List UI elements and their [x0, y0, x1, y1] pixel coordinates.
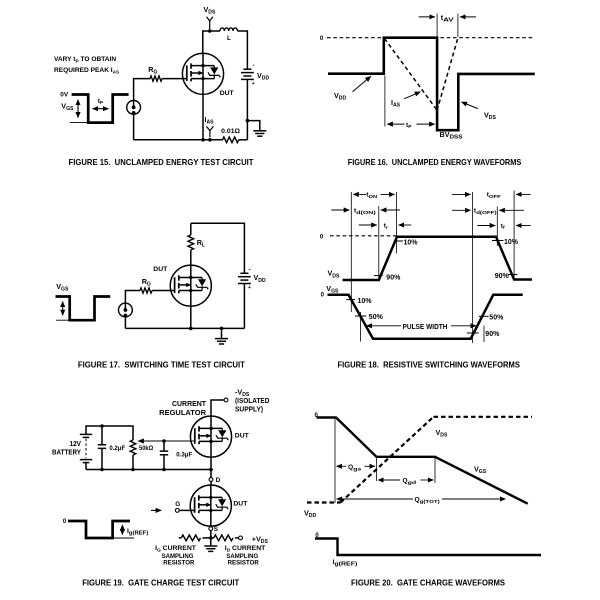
resistor ID sampling: [214, 535, 233, 541]
pulse baseline tick: [70, 122, 88, 124]
pulse waveform VGS: [56, 297, 111, 321]
potentiometer 50k: [130, 440, 136, 455]
pulse waveform Ig: [68, 521, 130, 538]
wire RG to gate: [162, 78, 187, 80]
capacitor 0.3uF bottom lead: [163, 455, 165, 470]
tick 90 percent VDS left: [374, 275, 383, 277]
svg-text:0.3μF: 0.3μF: [176, 452, 192, 459]
tick vertical 50 percent right: [483, 326, 485, 343]
wire top left: [203, 31, 220, 53]
arrow VDD pointer: [353, 76, 371, 92]
arrow pulse width left: [367, 325, 402, 327]
tick vertical tAV right: [457, 14, 459, 38]
svg-text:REGULATOR: REGULATOR: [159, 408, 206, 417]
junction dot DUT source: [201, 138, 205, 142]
svg-text:0.2μF: 0.2μF: [109, 445, 125, 452]
battery dashed middle: [85, 439, 87, 459]
wire terminal D to DUT drain: [210, 481, 212, 485]
svg-text:FIGURE 20. GATE CHARGE WAVEFO: FIGURE 20. GATE CHARGE WAVEFORMS: [351, 577, 505, 587]
arrow td(ON) left: [331, 209, 349, 211]
pulse generator: [127, 101, 141, 115]
svg-text:90%: 90%: [495, 273, 510, 280]
node VDS arrow: [207, 17, 213, 30]
arrow Qg(TOT) right: [442, 498, 506, 500]
svg-text:50%: 50%: [489, 315, 504, 322]
wire bottom left: [134, 139, 223, 141]
wire pulse gen top: [134, 79, 150, 101]
svg-text:PULSE WIDTH: PULSE WIDTH: [403, 324, 448, 331]
waveform VDS dashed flat left: [307, 501, 341, 503]
wire DUT source down: [202, 94, 204, 139]
arrow td(ON) right: [381, 209, 400, 211]
tick vertical tAV left: [436, 14, 438, 38]
resistor 0.01 ohm: [223, 137, 239, 143]
svg-text:G: G: [175, 501, 180, 508]
svg-text:90%: 90%: [386, 274, 401, 281]
junction dots bottom rail: [100, 468, 104, 472]
wire DUT source to terminal S: [210, 525, 212, 528]
wire to ground: [247, 121, 259, 131]
svg-text:-: -: [249, 268, 251, 274]
arrow tON right: [381, 193, 395, 195]
waveform Ig(REF): [315, 539, 541, 556]
ground: [204, 546, 217, 551]
wire battery bottom: [85, 463, 87, 470]
svg-text:VARY tP TO OBTAIN: VARY tP TO OBTAIN: [54, 56, 116, 64]
terminal D: [209, 478, 213, 482]
arrow tr left: [359, 224, 377, 226]
arrow tAV right: [460, 16, 476, 18]
resistor IG sampling: [181, 535, 200, 541]
svg-text:10%: 10%: [504, 239, 519, 246]
tick vertical 50 percent left: [360, 312, 362, 342]
svg-text:DUT: DUT: [220, 90, 235, 97]
arrow Qgd left: [378, 479, 400, 481]
svg-text:50%: 50%: [369, 314, 384, 321]
dashed recovery line: [437, 39, 458, 111]
svg-text:BATTERY: BATTERY: [52, 450, 81, 457]
wire bottom right: [239, 139, 248, 141]
svg-text:FIGURE 19. GATE CHARGE TEST C: FIGURE 19. GATE CHARGE TEST CIRCUIT: [82, 577, 239, 587]
waveform VGS solid: [317, 418, 528, 504]
ground node dot: [246, 119, 250, 123]
arrow td(OFF) right: [499, 209, 524, 211]
svg-text:50kΩ: 50kΩ: [139, 445, 154, 452]
arrow tf right: [516, 225, 531, 227]
transistor DUT lower: [190, 485, 231, 526]
junction dot cap top: [100, 424, 104, 428]
svg-text:FIGURE 18. RESISTIVE SWITCHIN: FIGURE 18. RESISTIVE SWITCHING WAVEFORMS: [337, 360, 520, 370]
wire RL bottom lead: [190, 250, 192, 265]
arrow VGS amplitude: [62, 302, 64, 316]
resistor RL: [188, 235, 194, 250]
svg-text:10%: 10%: [358, 298, 373, 305]
tick vertical plateau end: [434, 457, 436, 483]
arrow tOFF left: [452, 193, 471, 195]
junction dot ground: [220, 327, 224, 331]
waveform VDS: [343, 237, 533, 280]
arrow Qgs left: [337, 465, 347, 467]
svg-text:REQUIRED PEAK IAS: REQUIRED PEAK IAS: [54, 67, 119, 75]
wire sampling rail left: [179, 537, 182, 539]
svg-text:S: S: [214, 526, 219, 533]
ground: [215, 339, 228, 344]
svg-text:SUPPLY): SUPPLY): [235, 405, 264, 414]
arrow tOFF right: [516, 193, 531, 195]
svg-text:FIGURE 17. SWITCHING TIME TES: FIGURE 17. SWITCHING TIME TEST CIRCUIT: [78, 360, 245, 370]
capacitor 0.3uF: [160, 451, 168, 455]
svg-text:10%: 10%: [404, 239, 419, 246]
arrow pulse width right: [451, 325, 476, 327]
potentiometer wiper arrow: [138, 440, 195, 442]
wire to center node: [203, 537, 214, 539]
svg-text:90%: 90%: [485, 331, 500, 338]
wire to +VDS terminal: [235, 537, 239, 539]
junction dot sampling node: [209, 536, 213, 540]
capacitor 0.3uF top lead: [163, 441, 165, 451]
waveform VDS solid: [328, 38, 535, 131]
wire DUT source down: [190, 306, 192, 328]
wire pulse gen bottom: [133, 114, 135, 140]
tick vertical tp left: [384, 76, 386, 127]
transistor current regulator: [190, 416, 231, 457]
wire RG to gate: [152, 290, 174, 292]
zero reference dashed line: [330, 235, 397, 237]
svg-text:RESISTOR: RESISTOR: [228, 559, 259, 566]
capacitor 0.2uF: [98, 445, 106, 449]
waveform VDS dashed ramp: [341, 417, 434, 503]
pulse baseline tick: [56, 319, 69, 321]
waveform VDS dashed flat top: [434, 416, 533, 418]
transistor DUT: [182, 53, 223, 94]
tick 50 percent VGS left: [355, 315, 366, 317]
wire top right: [238, 31, 248, 69]
tick vertical plateau start: [376, 457, 378, 481]
wire regulator source to rail: [210, 457, 212, 469]
arrow Qgd right: [421, 479, 434, 481]
terminal +VDS: [239, 536, 243, 540]
arrow Ig amplitude: [121, 525, 123, 535]
junction dot wiper wire: [162, 439, 166, 443]
battery VDD: [238, 273, 251, 283]
tick 10 percent VDS left: [394, 240, 403, 242]
battery 12V: [80, 434, 92, 462]
wire battery to bottom: [243, 284, 245, 329]
terminal G: [175, 509, 179, 513]
wire RL top lead: [190, 223, 192, 235]
tick vertical VDS 10 left: [396, 192, 398, 254]
node VDS junction dot: [208, 29, 212, 33]
ground stem: [221, 328, 223, 338]
svg-text:12V: 12V: [70, 441, 82, 448]
dashed current ramp IAS: [385, 39, 438, 111]
zero reference dashed line: [327, 37, 534, 39]
resistor RG: [150, 76, 162, 81]
arrow IAS pointer: [404, 92, 420, 99]
svg-text:0V: 0V: [60, 92, 69, 99]
capacitor 0.2uF top lead: [101, 426, 103, 445]
arrow VDS pointer: [462, 102, 478, 109]
arrow tr right: [399, 224, 412, 226]
ground: [253, 131, 266, 136]
tick vertical VDS 90 right: [513, 191, 515, 280]
wire terminal to regulator drain: [211, 400, 224, 416]
wire top rail: [191, 223, 245, 273]
tick 90 percent VDS right: [508, 274, 517, 276]
pulse waveform VGS: [72, 95, 129, 123]
arrow VGS amplitude: [77, 100, 79, 118]
wire rail to terminal D: [210, 470, 212, 478]
wire bottom rail upper section: [86, 469, 211, 471]
inductor L: [220, 28, 237, 31]
tick vertical Qgs left: [334, 419, 336, 503]
tick vertical VGS on edge: [350, 192, 352, 312]
wire bottom rail: [125, 327, 244, 329]
wire S to sampling node: [210, 531, 212, 538]
svg-text:D: D: [216, 477, 221, 484]
arrow tp left: [387, 123, 404, 125]
arrow tp: [93, 108, 109, 110]
arrow tON left: [353, 193, 366, 195]
junction dot IAS: [208, 138, 212, 142]
tick vertical VGS off edge: [472, 192, 474, 343]
tick 50 percent VGS right: [479, 315, 489, 317]
waveform VGS: [328, 295, 523, 339]
arrow Qgs right: [365, 465, 376, 467]
tick 10 percent VGS left: [346, 299, 355, 301]
potentiometer bottom lead: [132, 455, 134, 470]
transistor DUT: [170, 265, 211, 306]
tick vertical VDS 10 right: [496, 207, 498, 247]
wire pulse gen bottom: [124, 317, 126, 329]
svg-text:DUT: DUT: [235, 432, 250, 439]
arrow tp right: [417, 123, 435, 125]
wire pulse gen top: [125, 291, 140, 304]
junction dot DUT source: [189, 327, 193, 331]
resistor RG: [140, 288, 152, 293]
tick vertical VDS 90 left: [378, 206, 380, 280]
svg-text:-: -: [253, 63, 255, 69]
arrow gate input: [151, 509, 161, 511]
battery VDD: [241, 69, 254, 79]
tick 90 percent VGS right: [467, 332, 479, 334]
wire top rail: [86, 426, 133, 440]
svg-text:0.01Ω: 0.01Ω: [221, 128, 240, 135]
tick 10 percent VDS right: [492, 240, 504, 242]
svg-text:DUT: DUT: [233, 500, 248, 507]
pulse generator: [119, 303, 133, 317]
terminal -VDS isolated supply: [224, 398, 228, 402]
svg-text:+: +: [252, 81, 255, 87]
capacitor 0.2uF bottom lead: [101, 448, 103, 469]
ground stem: [210, 538, 212, 546]
terminal S: [209, 527, 213, 531]
arrow tf left: [477, 225, 495, 227]
wire G to gate: [179, 509, 194, 511]
svg-text:CURRENT: CURRENT: [172, 399, 206, 408]
svg-text:DUT: DUT: [153, 266, 168, 273]
wire battery to bottom: [246, 79, 248, 139]
arrow td(OFF) left: [452, 209, 471, 211]
svg-text:FIGURE 15. UNCLAMPED ENERGY T: FIGURE 15. UNCLAMPED ENERGY TEST CIRCUIT: [69, 157, 254, 167]
arrow Qg(TOT) left: [337, 498, 413, 500]
svg-text:RESISTOR: RESISTOR: [163, 559, 194, 566]
svg-text:+: +: [248, 285, 251, 291]
node IAS arrow: [206, 126, 213, 137]
arrow tAV left: [419, 16, 435, 18]
svg-text:FIGURE 16. UNCLAMPED ENERGY W: FIGURE 16. UNCLAMPED ENERGY WAVEFORMS: [348, 157, 522, 167]
svg-text:L: L: [227, 35, 231, 42]
pulse baseline tick: [113, 537, 134, 539]
